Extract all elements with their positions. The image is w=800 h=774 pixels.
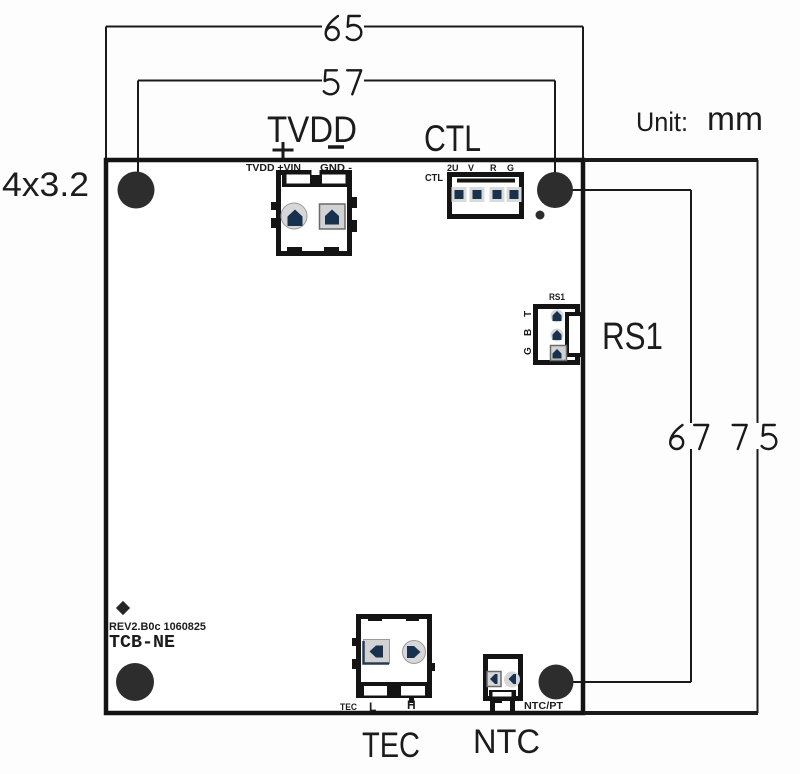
svg-text:RS1: RS1 xyxy=(549,292,565,302)
svg-text:RS1: RS1 xyxy=(602,316,663,358)
svg-text:V: V xyxy=(468,163,474,173)
svg-text:mm: mm xyxy=(707,100,763,137)
svg-text:TCB-NE: TCB-NE xyxy=(109,633,175,653)
svg-text:REV2.B0c 1060825: REV2.B0c 1060825 xyxy=(109,621,206,633)
svg-text:NTC: NTC xyxy=(473,723,540,761)
svg-text:T: T xyxy=(523,311,534,317)
svg-text:B: B xyxy=(523,329,534,336)
svg-text:G: G xyxy=(507,163,514,173)
svg-text:L: L xyxy=(369,700,376,714)
svg-text:TVDD: TVDD xyxy=(267,109,357,150)
svg-text:TEC: TEC xyxy=(340,702,357,712)
svg-text:2U: 2U xyxy=(447,163,459,173)
svg-text:Unit:: Unit: xyxy=(636,107,688,137)
svg-text:R: R xyxy=(490,163,497,173)
svg-text:H: H xyxy=(407,698,416,712)
svg-text:TEC: TEC xyxy=(362,726,420,765)
svg-text:CTL: CTL xyxy=(425,173,443,184)
svg-text:G: G xyxy=(523,347,534,355)
svg-text:4x3.2: 4x3.2 xyxy=(2,166,89,204)
svg-text:NTC/PT: NTC/PT xyxy=(524,701,563,712)
svg-text:CTL: CTL xyxy=(424,118,481,159)
